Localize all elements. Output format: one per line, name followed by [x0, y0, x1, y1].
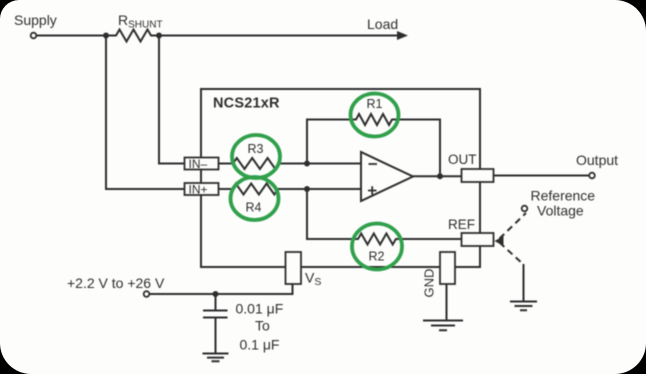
wire shunt to load: [159, 35, 399, 37]
terminal Output: [589, 173, 595, 179]
pin box REF: [462, 233, 494, 246]
op-amp plus sign: [368, 186, 377, 195]
junction dot output node: [437, 173, 443, 179]
IC body NCS21xR: [201, 89, 480, 267]
wire supply rail to VS pin: [150, 284, 293, 294]
svg-text:Reference: Reference: [531, 188, 596, 204]
svg-text:VS: VS: [305, 270, 321, 289]
wire left junction down to IN+: [106, 36, 185, 190]
junction dot plus node: [304, 186, 310, 192]
pin box VS: [286, 252, 302, 284]
svg-text:R3: R3: [248, 142, 264, 156]
wire right junction down to IN-: [159, 36, 185, 164]
gain resistor circle R3: [232, 135, 280, 178]
pin box IN+: [185, 183, 219, 195]
dashed switch wire to Reference Voltage: [500, 213, 527, 239]
capacitor C1 plates: [203, 311, 228, 318]
arrowhead Load: [397, 31, 408, 40]
junction dot top right: [156, 33, 162, 39]
svg-text:R1: R1: [367, 97, 383, 111]
dashed switch wire to ground: [500, 243, 524, 265]
junction dot supply bottom: [213, 291, 219, 297]
pin box GND: [440, 252, 455, 284]
wire IN- through resistor R3 to op-amp minus input: [219, 158, 362, 169]
arrowhead switch at REF: [495, 236, 504, 246]
wire OUT pin to Output terminal: [494, 175, 590, 177]
wire switch to ground: [523, 264, 525, 302]
wire IN+ through resistor R4 to op-amp plus input: [219, 184, 362, 195]
svg-text:To: To: [255, 318, 270, 334]
resistor RSHUNT: [106, 30, 159, 42]
terminal Reference Voltage: [522, 206, 528, 212]
junction dot minus node: [304, 161, 310, 167]
pin box OUT: [462, 169, 494, 182]
pin box IN-: [185, 158, 219, 170]
svg-text:IN–: IN–: [189, 157, 208, 171]
svg-text:GND: GND: [422, 269, 437, 298]
wire op-amp output to OUT pin: [413, 175, 462, 177]
ground under GND pin: [423, 321, 463, 331]
svg-text:0.01 μF: 0.01 μF: [236, 301, 284, 317]
svg-text:IN+: IN+: [189, 182, 208, 196]
svg-text:NCS21xR: NCS21xR: [213, 96, 280, 112]
ground under capacitor: [203, 354, 229, 362]
gain resistor circle R4: [231, 177, 279, 220]
svg-text:Supply: Supply: [14, 12, 57, 28]
op-amp minus sign: [369, 163, 378, 165]
wire junction to capacitor: [215, 294, 217, 311]
wire plus node through resistor R2 to REF pin: [307, 189, 462, 245]
terminal +2.2V: [144, 291, 150, 297]
svg-text:Load: Load: [367, 16, 398, 32]
op-amp U1: [361, 152, 413, 201]
feedback wire through resistor R1: [307, 114, 440, 176]
junction dot top left: [103, 33, 109, 39]
wire capacitor to ground: [215, 318, 217, 354]
svg-text:R4: R4: [246, 201, 262, 215]
svg-text:RSHUNT: RSHUNT: [118, 12, 163, 31]
svg-text:0.1 μF: 0.1 μF: [240, 337, 280, 353]
terminal Supply: [31, 33, 37, 39]
gain resistor circle R2: [352, 224, 402, 270]
svg-text:+2.2 V to +26 V: +2.2 V to +26 V: [67, 275, 165, 291]
wire GND pin to ground: [446, 284, 448, 321]
ground under switch: [510, 302, 537, 311]
svg-text:Voltage: Voltage: [537, 203, 584, 219]
svg-text:OUT: OUT: [448, 152, 477, 167]
gain resistor circle R1: [351, 94, 399, 137]
svg-text:Output: Output: [576, 152, 618, 168]
wire supply to shunt: [37, 35, 107, 37]
svg-text:R2: R2: [369, 250, 385, 264]
svg-text:REF: REF: [448, 217, 475, 232]
